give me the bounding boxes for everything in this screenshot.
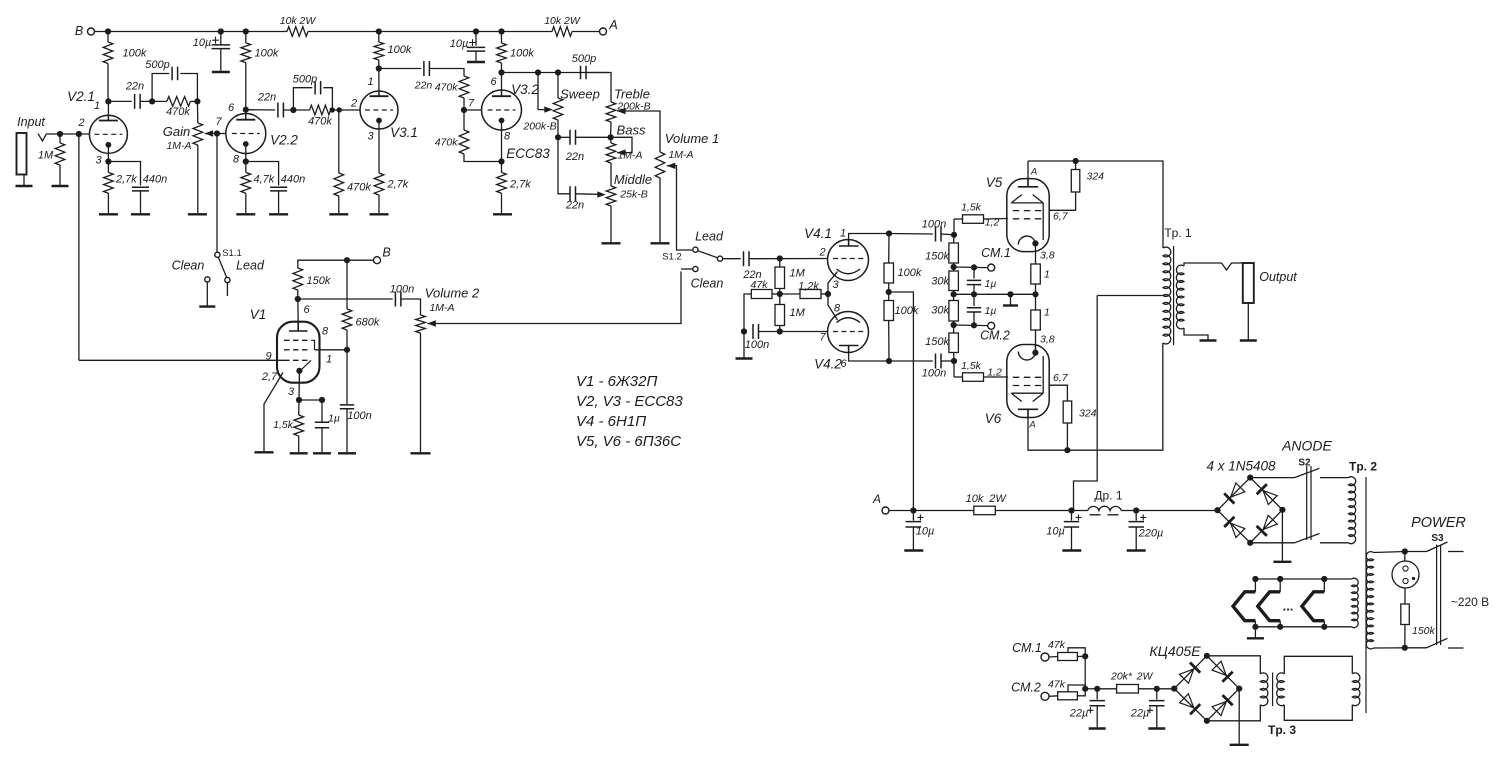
- wire 22u node to 20k: [1097, 688, 1116, 690]
- node bridge2 right: [1236, 686, 1242, 692]
- node V4.2 plate: [886, 358, 892, 364]
- svg-text:1,5k: 1,5k: [961, 360, 982, 372]
- diode D8 (bridge2 lower-right): [1212, 695, 1233, 716]
- potentiometer Sweep 200k-B: [553, 98, 563, 120]
- svg-text:A: A: [608, 18, 617, 32]
- wire 22n 3 to 470k chain: [430, 69, 465, 77]
- treble wiper arrow: [617, 108, 626, 114]
- svg-text:Treble: Treble: [614, 87, 650, 102]
- wire CM2 to 47k: [1049, 695, 1058, 698]
- node CM.1: [951, 264, 957, 270]
- svg-text:S3: S3: [1431, 533, 1444, 544]
- resistor 47k CM.2 tap: [1068, 685, 1085, 692]
- svg-text:470k: 470k: [308, 116, 332, 128]
- node 22u1: [1094, 686, 1100, 692]
- resistor 150k (lamp ballast): [1401, 604, 1410, 625]
- node tail junction: [777, 291, 783, 297]
- svg-text:1,2: 1,2: [985, 217, 1000, 229]
- wire V1 plate stem: [297, 299, 299, 322]
- svg-text:4,7k: 4,7k: [254, 174, 275, 186]
- switch S3 gang bars: [1437, 545, 1441, 646]
- plus sign 10u4: [1076, 514, 1082, 520]
- potentiometer Volume 2 1M-A: [416, 315, 426, 333]
- wire 22n to 470k: [140, 100, 167, 102]
- wire 440n 2 to ground: [278, 191, 280, 213]
- svg-text:7: 7: [819, 332, 826, 344]
- ground under 1,5k: [290, 452, 308, 454]
- resistor 4,7k (V2.2 cathode): [241, 172, 251, 193]
- wire bridge2 top to Tp.3: [1207, 656, 1260, 674]
- wire 500p branch down-right: [180, 74, 197, 102]
- node sweep feed: [535, 69, 541, 75]
- wire 220u to ground: [1135, 527, 1137, 550]
- svg-text:СМ.2: СМ.2: [1011, 681, 1041, 695]
- svg-text:680k: 680k: [356, 317, 380, 329]
- wire 1M1 bottom: [779, 289, 781, 295]
- resistor 1M (V4.2 grid): [775, 305, 785, 326]
- node bridge1 right: [1279, 507, 1285, 513]
- node heater top 2: [1277, 576, 1283, 582]
- wire bridge1 bottom to S2: [1250, 542, 1294, 544]
- terminal B (top-left B+ input): [88, 28, 95, 35]
- wire 150k lamp to bottom: [1404, 625, 1406, 648]
- svg-text:10k 2W: 10k 2W: [280, 15, 317, 27]
- wire V3.2 cathode to pin 8 node: [501, 130, 503, 162]
- svg-text:V3.2: V3.2: [511, 82, 539, 97]
- svg-text:100n: 100n: [347, 410, 371, 422]
- capacitor 22n (to V4.1): [744, 251, 750, 266]
- svg-text:22µ: 22µ: [1069, 708, 1089, 720]
- node rail / 10u cap 2: [473, 28, 479, 34]
- svg-text:V2, V3 - ECC83: V2, V3 - ECC83: [576, 393, 683, 410]
- capacitor 100n (V4.2 grid): [753, 324, 759, 339]
- wire pin8 to 440n 2: [246, 162, 279, 186]
- resistor 1,5k (V1 cathode): [294, 415, 304, 436]
- capacitor 500p (across 470k, V2.2 stage): [315, 81, 321, 95]
- wire 1u b bottom: [973, 312, 975, 325]
- node heater top 3: [1321, 576, 1327, 582]
- wire 500p 2 branch down: [323, 88, 332, 110]
- wire V2.2 grid entry: [217, 133, 226, 135]
- svg-text:B: B: [382, 246, 390, 260]
- wire bass pot to middle pot: [610, 163, 612, 186]
- svg-text:100n: 100n: [390, 284, 414, 296]
- wire 100k V3.2 to plate node: [501, 63, 503, 73]
- wire mains top: [1374, 552, 1405, 553]
- ground under 220u: [1127, 549, 1146, 551]
- wire secondary top to output: [1184, 263, 1222, 266]
- wire rail to 100k V2.1: [107, 32, 109, 43]
- wire middle pot to ground: [610, 206, 612, 242]
- svg-text:1M: 1M: [38, 150, 54, 162]
- node choke input: [1068, 507, 1074, 513]
- wire bridge1 top to S2: [1250, 477, 1294, 479]
- output jack: [1243, 263, 1254, 303]
- wire divider to V3.2 grid: [464, 109, 482, 111]
- node V2.2 cathode pin 8: [243, 158, 249, 164]
- transformer Tp.2 anode winding: [1349, 477, 1356, 544]
- svg-text:100k: 100k: [388, 44, 412, 56]
- wire gain wiper node down to S1.1: [216, 134, 218, 253]
- resistor 100k (V4.1 plate): [884, 263, 894, 283]
- wire cathode to 1,5k: [298, 400, 300, 415]
- node 22n2 / 500p 2 junction: [290, 107, 296, 113]
- svg-text:500p: 500p: [572, 53, 596, 65]
- wire volume1 to ground: [659, 178, 661, 242]
- wire bass wiper loop: [611, 137, 632, 152]
- wire 680k top: [346, 260, 348, 309]
- ground under 2,7k V3.1: [370, 213, 389, 215]
- wire 47k left leg: [744, 294, 751, 332]
- node heater bottom 1: [1252, 624, 1258, 630]
- resistor 470k (V3.2 grid lower): [459, 130, 469, 154]
- wire Tp.1 center tap: [1097, 295, 1163, 297]
- svg-text:ANODE: ANODE: [1281, 438, 1332, 454]
- potentiometer Treble 200k-B: [606, 102, 616, 122]
- svg-text:1,5k: 1,5k: [273, 419, 294, 431]
- tube V5 envelope and electrodes: [1007, 179, 1049, 252]
- wire rail to 10u cap 1: [220, 32, 222, 46]
- tube V6 envelope and electrodes: [1007, 345, 1049, 418]
- wire 500p branch up-left: [152, 74, 169, 102]
- svg-text:S2: S2: [1298, 458, 1311, 469]
- bridge1 edge UL: [1218, 478, 1251, 511]
- resistor 100k (V4.2 plate): [884, 301, 894, 321]
- wire bridge2 bottom to Tp.3: [1207, 705, 1260, 721]
- svg-text:3: 3: [832, 279, 839, 291]
- tube V4.2 cathode arc: [837, 318, 861, 323]
- svg-text:22n: 22n: [125, 81, 144, 93]
- plus sign 10u cap 2: [469, 39, 476, 46]
- svg-text:150k: 150k: [925, 336, 949, 348]
- node V3.2 cathode pin 8: [498, 158, 504, 164]
- svg-text:A: A: [1030, 167, 1037, 178]
- diode D4 (bridge1 lower-right): [1257, 515, 1278, 536]
- svg-text:470k: 470k: [435, 82, 459, 94]
- tube V1 grid rows: [284, 340, 311, 360]
- node 22u2: [1154, 686, 1160, 692]
- ground under 10u4: [1062, 549, 1081, 551]
- svg-text:Output: Output: [1259, 270, 1297, 284]
- wire rail to 100k V2.2: [245, 32, 247, 43]
- resistor 150k (upper): [949, 243, 959, 263]
- wire bridge1 right to ground: [1281, 510, 1283, 561]
- svg-text:V5, V6 - 6П36С: V5, V6 - 6П36С: [576, 433, 681, 450]
- wire 10u4 to ground: [1071, 527, 1073, 550]
- wire V3.1 grid node to grid leak: [338, 110, 340, 173]
- wire 440n to ground: [140, 191, 142, 213]
- wire 100k V2.2 to plate node: [245, 63, 247, 110]
- transformer Tp.3 primary winding: [1277, 673, 1285, 706]
- wire mains bottom to S3: [1405, 647, 1427, 649]
- wire V1 plate node to 100n3: [298, 298, 393, 300]
- terminal CM.1 bias: [1041, 653, 1049, 661]
- wire V4.2 cathode lead: [828, 294, 838, 320]
- capacitor 10u (filter 4): [1064, 522, 1079, 527]
- bridge1 edge LR: [1250, 510, 1282, 543]
- wire sweep pot to 22n node: [557, 120, 559, 137]
- ground under 1M: [52, 185, 69, 187]
- wire output arrow notch: [1222, 263, 1243, 270]
- ground under 10u cap 2: [467, 61, 485, 63]
- diode D6 (bridge2 upper-right): [1212, 661, 1233, 682]
- capacitor 100n (V1 coupling): [395, 292, 401, 307]
- svg-text:V2.2: V2.2: [270, 133, 298, 148]
- ground under output jack: [1240, 339, 1257, 341]
- tube V5 cathode: [1032, 240, 1038, 246]
- svg-text:100n: 100n: [922, 368, 946, 380]
- wire input node to 1M: [59, 134, 61, 143]
- svg-text:1µ: 1µ: [985, 305, 997, 317]
- volume2 wiper arrow: [427, 320, 436, 326]
- wire 22n middle to arrow: [576, 193, 598, 196]
- svg-text:2W: 2W: [988, 493, 1007, 505]
- svg-text:2,7k: 2,7k: [509, 179, 531, 191]
- svg-text:2,7: 2,7: [261, 371, 278, 383]
- capacitor 500p (across 470k, V2.1 stage): [172, 67, 178, 80]
- svg-text:2W: 2W: [1136, 671, 1154, 683]
- wire V2.2 plate to 22n 2: [246, 109, 275, 111]
- tube V4.2 plate: [839, 346, 859, 353]
- gain pot wiper arrow: [205, 130, 214, 136]
- ground heater bus: [1247, 637, 1264, 639]
- wire volume1 wiper to S1.2 lead: [667, 166, 692, 250]
- wire V1 heater leader: [264, 373, 283, 452]
- wire 1u a top: [973, 267, 975, 278]
- svg-text:Bass: Bass: [617, 123, 646, 138]
- capacitor 440n (V2.2 cathode bypass): [270, 187, 287, 191]
- potentiometer Volume 1 1M-A: [655, 152, 665, 178]
- wire 680k bottom to grid node: [346, 330, 348, 350]
- resistor 10k 2W (supply): [974, 506, 996, 515]
- ground under bridge2: [1230, 744, 1249, 746]
- wire divider seg5: [953, 353, 955, 362]
- wire CM1 to 47k: [1049, 656, 1058, 659]
- node bias bus top: [1082, 653, 1088, 659]
- node bridge2 left: [1171, 686, 1177, 692]
- svg-text:100n: 100n: [922, 219, 946, 231]
- svg-text:1,2: 1,2: [987, 367, 1002, 379]
- wire heater bus top: [1255, 578, 1351, 580]
- svg-text:3: 3: [368, 131, 375, 143]
- ground under 4,7k V2.2: [236, 213, 255, 215]
- ground under Tp.1 secondary: [1200, 339, 1217, 341]
- wire Tp.3 primary loop top: [1284, 656, 1352, 674]
- node bridge1 bottom: [1247, 540, 1253, 546]
- wire 1 ohm V6 to V6 cathode: [1035, 330, 1037, 353]
- wire center tap down to supply: [1074, 296, 1098, 511]
- wire rail to 100k V3.1: [378, 32, 380, 43]
- ground under V1 heater leader: [255, 451, 274, 453]
- svg-text:S1.2: S1.2: [662, 252, 682, 263]
- wire grid node to 1,5k V6: [954, 376, 963, 378]
- wire to V3.1 grid: [331, 109, 360, 111]
- svg-text:6: 6: [228, 102, 235, 114]
- plus sign 22u2: [1147, 707, 1153, 713]
- ground under S1.1 clean: [199, 305, 215, 307]
- node V3.2 plate pin 6: [498, 69, 504, 75]
- node 470k2 right / 500p2: [330, 107, 335, 112]
- node V1 plate pin 6: [295, 296, 301, 302]
- wire pin8 V3.2 to 2,7k: [501, 162, 503, 173]
- wire 500p 2 branch up: [293, 88, 312, 110]
- svg-text:324: 324: [1087, 171, 1105, 183]
- heater filament 3: [1302, 592, 1324, 621]
- wire heater bus bottom: [1255, 626, 1351, 628]
- switch S3 blade top: [1427, 542, 1448, 552]
- node V4 B+ feed: [886, 289, 892, 295]
- ground under 2,7k V2.1: [99, 213, 118, 215]
- wire long V1 grid feed: [79, 359, 284, 361]
- wire center to 1 ohm V6: [1035, 294, 1037, 310]
- node 220u filter: [1133, 507, 1139, 513]
- wire V2.2 cathode to pin 8 node: [245, 154, 247, 162]
- tube V4.1 plate: [839, 240, 859, 246]
- switch S1.1 pole contact: [215, 252, 220, 257]
- node input / 1M junction: [57, 131, 63, 137]
- wire A rail to 10k: [913, 510, 973, 512]
- svg-text:22n: 22n: [565, 151, 584, 163]
- node V4.2 grid: [777, 328, 783, 334]
- svg-text:3: 3: [288, 386, 295, 398]
- switch S2 blade top: [1295, 468, 1320, 477]
- svg-text:V3.1: V3.1: [390, 125, 418, 140]
- svg-text:10µ: 10µ: [450, 38, 469, 50]
- wire 100n to V5 grid node: [941, 233, 954, 236]
- switch S1.2 pole contact: [717, 256, 722, 261]
- wire mains bottom: [1374, 647, 1405, 649]
- svg-text:V4.2: V4.2: [814, 357, 842, 372]
- wire mains top to S3: [1405, 551, 1427, 553]
- wire V5 anode up: [1027, 161, 1029, 179]
- svg-text:150k: 150k: [925, 251, 949, 263]
- ground under V3.1 grid leak: [329, 213, 348, 215]
- resistor 10k 2W (rail, right): [552, 27, 572, 37]
- capacitor 1u (CM.2): [967, 308, 981, 312]
- node V4 cathodes: [825, 291, 831, 297]
- svg-text:1: 1: [1044, 269, 1050, 281]
- svg-text:470k: 470k: [166, 106, 190, 118]
- bridge2 edge UL: [1174, 656, 1207, 689]
- svg-text:6,7: 6,7: [1053, 211, 1069, 223]
- svg-text:Gain: Gain: [163, 124, 190, 139]
- transformer Tp.3 core: [1272, 673, 1274, 707]
- ground under 2,7k V3.2: [493, 213, 512, 215]
- svg-text:2,7k: 2,7k: [115, 174, 137, 186]
- svg-text:Volume 2: Volume 2: [425, 286, 480, 301]
- wire S2 top fixed: [1320, 477, 1349, 479]
- svg-text:10µ: 10µ: [1046, 526, 1065, 538]
- capacitor 10u electrolytic (rail filter 2): [467, 47, 485, 51]
- diode D3 (bridge1 lower-left): [1224, 517, 1245, 538]
- wire 100k mid: [888, 283, 890, 301]
- wire center row to 1 ohm chain: [1011, 293, 1036, 295]
- wire B2 to 150k corner: [298, 260, 374, 268]
- plus sign 10u cap 1: [212, 37, 219, 44]
- transformer Tp.2 mains winding: [1366, 552, 1373, 649]
- wire grid node into tube: [315, 349, 348, 351]
- node divider center: [951, 291, 957, 297]
- wire 20k to 22u2 node: [1138, 688, 1156, 690]
- wire divider seg3: [953, 291, 955, 301]
- wire V5 screen exit: [1049, 192, 1075, 210]
- node V2.1 cathode pin 3: [105, 158, 111, 164]
- wire pin3 to 2,7k: [107, 162, 109, 173]
- wire choke node to choke: [1072, 510, 1088, 512]
- wire 1u to ground: [321, 428, 323, 453]
- wire V4.2 grid wire: [780, 331, 828, 333]
- node sweep pot top: [555, 69, 561, 75]
- transformer Tp.2 aux winding: [1352, 673, 1360, 706]
- capacitor 22u (bias 1): [1090, 701, 1106, 706]
- capacitor 22n (bass): [570, 130, 576, 145]
- svg-text:...: ...: [1283, 599, 1294, 614]
- svg-text:6: 6: [840, 358, 847, 370]
- wire center ground stem: [1010, 294, 1012, 304]
- ground under gain pot: [188, 213, 207, 215]
- plus sign 22u1: [1087, 707, 1093, 713]
- switch S1.1 clean contact: [205, 277, 210, 282]
- wire center row to ground: [954, 293, 1011, 295]
- capacitor 22n (middle): [570, 186, 576, 201]
- svg-text:8: 8: [322, 326, 329, 338]
- capacitor 1u (V1 cathode): [315, 422, 329, 427]
- wire pin3 to 440n: [108, 162, 140, 186]
- inductor Dr.1 choke: [1088, 506, 1121, 510]
- resistor 100k (V3.2 plate): [497, 43, 507, 63]
- ground under 22u1: [1089, 727, 1106, 729]
- node V5 screen resistor top: [1073, 158, 1079, 164]
- transformer Tp.1 core: [1173, 246, 1175, 345]
- node V5 grid feed: [951, 232, 957, 238]
- svg-text:V4 - 6Н1П: V4 - 6Н1П: [576, 413, 646, 430]
- wire S3 bottom stub: [1448, 647, 1464, 649]
- resistor 150k (lower): [949, 333, 959, 353]
- wire V3.1 plate stem: [378, 69, 380, 97]
- wire V4.2 plate to 100n: [889, 360, 933, 362]
- node CM.1 cap: [971, 264, 977, 270]
- svg-text:2: 2: [77, 117, 84, 129]
- capacitor 500p (treble): [581, 66, 587, 79]
- node CM.2: [951, 322, 957, 328]
- wire S2 bottom fixed: [1320, 542, 1349, 544]
- wire 100n to V6 grid node: [941, 360, 954, 362]
- svg-text:2: 2: [818, 247, 825, 259]
- svg-text:A: A: [872, 492, 881, 506]
- tube V1 plate: [289, 322, 308, 331]
- wire 2,7k V3.2 to ground: [501, 193, 503, 213]
- wire divider seg1: [953, 235, 955, 243]
- node heater bottom 3: [1321, 624, 1327, 630]
- wire 100k V3.1 to plate node: [378, 60, 380, 69]
- wire V3.1 plate to 22n 3: [379, 68, 421, 70]
- wire 2,7k V3.1 to ground: [378, 195, 380, 213]
- svg-text:500p: 500p: [145, 59, 169, 71]
- wire 1u a bottom: [973, 285, 975, 295]
- svg-text:V2.1: V2.1: [67, 89, 95, 104]
- wire Tp.3 primary loop bottom: [1284, 705, 1352, 721]
- resistor 470k (V3.1 grid leak): [334, 173, 344, 196]
- switch S1.1 lead contact: [225, 277, 230, 282]
- resistor 47k (CM.2): [1058, 692, 1078, 700]
- wire 100k a top: [888, 234, 890, 264]
- svg-text:4 x 1N5408: 4 x 1N5408: [1206, 459, 1276, 474]
- wire input arrow notch: [38, 134, 47, 141]
- node V2.1 plate: [105, 98, 111, 104]
- terminal B (V1 supply): [374, 257, 381, 264]
- volume1 wiper arrow: [667, 163, 676, 169]
- wire heater stub bottom 2: [1279, 621, 1281, 627]
